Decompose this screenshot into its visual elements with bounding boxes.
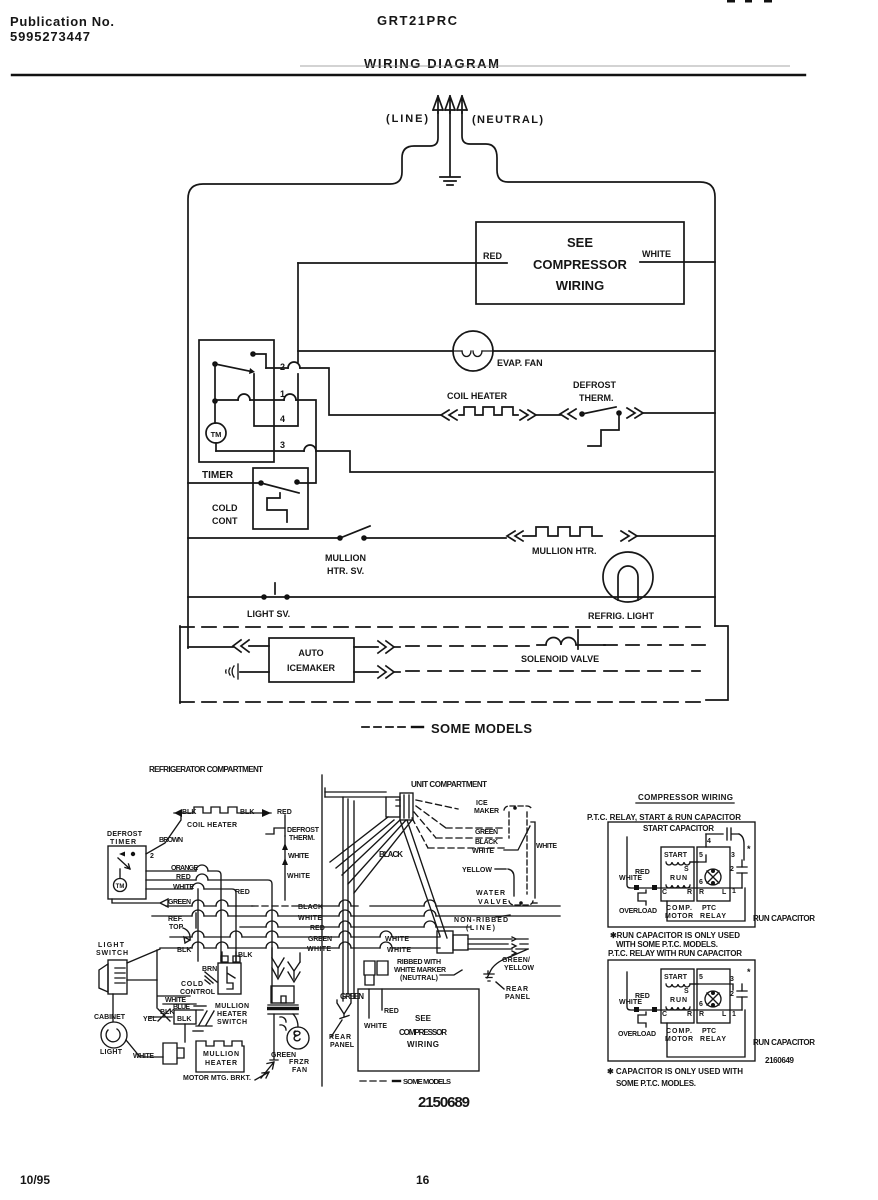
wire mullion heater to right bus (637, 535, 715, 537)
svg-text:HTR. SV.: HTR. SV. (327, 566, 364, 576)
svg-text:WATER: WATER (476, 890, 505, 897)
header rule line (12, 74, 805, 76)
svg-text:BLK: BLK (240, 809, 254, 816)
wire water to icemaker (240, 671, 269, 673)
timer arm jumper wire (254, 374, 298, 426)
coil heater element (459, 407, 518, 415)
svg-text:COMPRESSOR: COMPRESSOR (533, 257, 628, 272)
svg-text:R: R (699, 1011, 704, 1018)
svg-text:CONTROL: CONTROL (180, 989, 216, 996)
svg-text:ORANGE: ORANGE (171, 865, 198, 872)
svg-text:REAR: REAR (506, 986, 528, 993)
svg-text:RUN: RUN (670, 875, 687, 882)
run winding 1 (666, 885, 690, 888)
timer contact B (212, 361, 218, 367)
wire to RED with arrow (253, 812, 271, 814)
svg-text:PANEL: PANEL (330, 1042, 355, 1049)
defrost therm contact left (579, 411, 585, 417)
wire lamp to white (126, 1040, 163, 1057)
svg-text:WHITE: WHITE (307, 946, 331, 953)
ground symbol (440, 177, 460, 185)
wire brown to coil heater (146, 813, 181, 854)
timer box (199, 340, 274, 462)
coil heater inline arrows right (520, 410, 536, 420)
svg-text:HEATER: HEATER (217, 1011, 247, 1018)
svg-text:TOP: TOP (169, 924, 184, 931)
timer contact wire A (253, 354, 266, 368)
comp motor box 2 (661, 969, 694, 1023)
legend some models lower (360, 1080, 388, 1082)
svg-text:WHITE: WHITE (536, 843, 557, 850)
wire WHITE from compressor box (640, 261, 715, 263)
icemaker output wire 2 (354, 671, 378, 673)
svg-text:COIL HEATER: COIL HEATER (447, 391, 508, 401)
line arrow (433, 96, 443, 113)
svg-text:4: 4 (707, 838, 711, 845)
wire terminal 3 run (216, 451, 713, 472)
svg-text:YEL: YEL (143, 1016, 157, 1023)
svg-text:MULLION: MULLION (325, 553, 366, 563)
svg-text:WHITE: WHITE (472, 848, 494, 855)
main run wire 2 (661, 1009, 742, 1011)
wire switch to heater connector (184, 1024, 186, 1042)
wire left bus to cold control (188, 482, 261, 484)
svg-text:START: START (664, 852, 688, 859)
run winding 2 (666, 1007, 690, 1010)
svg-text:NON-RIBBED: NON-RIBBED (454, 917, 508, 924)
cold control bellows lower (227, 967, 235, 989)
line connector block (437, 931, 453, 953)
wire RED to compressor box (298, 262, 507, 264)
svg-text:SOME MODELS: SOME MODELS (403, 1077, 451, 1086)
start winding 2 (666, 984, 698, 987)
svg-text:GRT21PRC: GRT21PRC (377, 13, 458, 28)
svg-text:2150689: 2150689 (418, 1094, 470, 1111)
coil heater inline arrows left (441, 410, 457, 420)
svg-text:SWITCH: SWITCH (217, 1019, 247, 1026)
svg-text:VALVE: VALVE (478, 899, 507, 906)
svg-text:COMP.: COMP. (666, 1028, 692, 1035)
svg-text:16: 16 (416, 1173, 430, 1187)
svg-text:CABINET: CABINET (94, 1014, 126, 1021)
wire terminal 2 run (266, 368, 441, 415)
svg-text:MAKER: MAKER (474, 808, 499, 815)
ice maker dashed drops (509, 812, 527, 894)
svg-text:(NEUTRAL): (NEUTRAL) (400, 975, 438, 982)
wires plug to line connector (400, 820, 447, 938)
bus wire BLACK (166, 905, 252, 907)
run capacitor C2 2 (737, 991, 747, 997)
cold control bellows (267, 493, 287, 522)
defrost timer blade (118, 858, 130, 869)
defrost therm inline arrows left (560, 409, 576, 419)
white feed wire 2 (627, 972, 661, 1010)
mullion heater switch box (174, 1010, 196, 1024)
cold control contact right (294, 479, 300, 485)
svg-text:TM: TM (116, 884, 125, 890)
wire cold control drops (222, 952, 236, 961)
svg-text:3: 3 (730, 976, 734, 983)
svg-text:RUN CAPACITOR: RUN CAPACITOR (753, 1038, 815, 1047)
svg-text:RELAY: RELAY (700, 913, 726, 920)
svg-text:RUN: RUN (670, 997, 687, 1004)
black harness diagonals (330, 817, 412, 893)
svg-text:RED: RED (384, 1008, 399, 1015)
water supply symbol (226, 664, 238, 679)
svg-text:(LINE): (LINE) (466, 925, 495, 932)
svg-text:ICEMAKER: ICEMAKER (287, 663, 336, 673)
svg-text:2: 2 (280, 362, 285, 372)
cold control box lower (218, 963, 241, 994)
wire C to TM (214, 401, 216, 423)
svg-text:✱ CAPACITOR IS ONLY USED WITH: ✱ CAPACITOR IS ONLY USED WITH (607, 1067, 743, 1076)
overload protector 2 (638, 1012, 646, 1027)
freezer fan motor M2 (287, 1027, 309, 1049)
svg-text:COLD: COLD (181, 981, 203, 988)
svg-text:GREEN: GREEN (308, 936, 332, 943)
wire red riser (297, 263, 299, 362)
svg-text:SOME P.T.C. MODLES.: SOME P.T.C. MODLES. (616, 1079, 696, 1088)
defrost therm blade (582, 407, 616, 414)
svg-text:MULLION HTR.: MULLION HTR. (532, 546, 597, 556)
svg-text:3: 3 (731, 852, 735, 859)
wires into plug from divider (325, 792, 386, 797)
start winding 1 (666, 862, 698, 865)
svg-text:RED: RED (176, 874, 191, 881)
wire light switch to bus (127, 949, 160, 963)
cold control box (253, 468, 308, 529)
wire harness cluster (150, 980, 196, 1021)
svg-text:R: R (687, 889, 692, 896)
wire orange from timer (146, 871, 221, 961)
svg-text:5: 5 (699, 974, 703, 981)
yellow wire to water valve (508, 869, 514, 896)
junction dots on main wire 2 (634, 1007, 639, 1012)
svg-text:WHITE: WHITE (165, 997, 186, 1004)
svg-text:BLK: BLK (160, 1009, 174, 1016)
compressor wiring box U1 (476, 222, 684, 304)
rear panel ground (484, 974, 494, 981)
svg-text:COLD: COLD (212, 503, 238, 513)
ptc relay box 2 (697, 969, 730, 1023)
svg-text:6: 6 (699, 1001, 703, 1008)
green ground arrow (270, 1053, 278, 1060)
defrost timer motor TM (114, 879, 127, 892)
svg-text:P.T.C. RELAY WITH RUN CAPACITO: P.T.C. RELAY WITH RUN CAPACITOR (608, 949, 742, 958)
evap fan motor M1 (453, 331, 493, 371)
ground wire (449, 110, 451, 176)
wire TM down (215, 443, 217, 451)
wire mullion heater line (188, 537, 506, 539)
wire red drop (284, 815, 286, 828)
svg-text:HEATER: HEATER (205, 1060, 237, 1067)
cropped page-top marks (727, 0, 772, 3)
svg-text:TIMER: TIMER (110, 839, 136, 846)
unit compartment plug P1 (386, 797, 400, 817)
wire light switch line (188, 596, 715, 598)
wire switch to cabinet light (112, 994, 114, 1021)
legend some models (362, 726, 406, 728)
solenoid valve L1 (537, 638, 605, 645)
icemaker output wire 1 (354, 646, 378, 648)
mullion heater box lower (196, 1041, 244, 1072)
svg-text:COMPRESSOR WIRING: COMPRESSOR WIRING (638, 793, 733, 802)
timer switch blade (215, 364, 249, 371)
mullion heater inline arrows left (507, 531, 523, 541)
compressor leads (369, 989, 382, 1018)
svg-text:RED: RED (310, 925, 325, 932)
ref top arrow (183, 928, 190, 943)
svg-text:(NEUTRAL): (NEUTRAL) (472, 114, 543, 126)
cold control terminals (221, 956, 240, 962)
wire coil heater to defrost therm (536, 414, 560, 416)
svg-text:✱RUN CAPACITOR IS ONLY USED: ✱RUN CAPACITOR IS ONLY USED (610, 931, 740, 940)
compartment divider wire (321, 775, 323, 1086)
svg-text:S: S (684, 866, 689, 873)
dashed wires to ice maker (416, 800, 458, 809)
svg-text:SEE: SEE (415, 1014, 432, 1023)
svg-text:DEFROST: DEFROST (287, 827, 320, 834)
svg-text:TIMER: TIMER (202, 470, 234, 481)
svg-text:SWITCH: SWITCH (96, 950, 128, 957)
svg-text:MULLION: MULLION (203, 1051, 239, 1058)
svg-text:WHITE MARKER: WHITE MARKER (394, 967, 446, 974)
svg-text:GREEN: GREEN (340, 992, 364, 1001)
cold control contact left (258, 480, 264, 486)
svg-text:RELAY: RELAY (700, 1036, 726, 1043)
svg-text:C: C (662, 1011, 667, 1018)
svg-text:WHITE: WHITE (133, 1053, 154, 1060)
svg-text:MOTOR MTG. BRKT.: MOTOR MTG. BRKT. (183, 1075, 251, 1082)
ground arrow (445, 96, 455, 113)
some models dashed enclosure (179, 626, 181, 703)
coil heater element lower (174, 807, 253, 813)
svg-text:MOTOR: MOTOR (665, 913, 693, 920)
svg-text:5995273447: 5995273447 (10, 29, 90, 44)
svg-text:RED: RED (483, 251, 503, 261)
bus wire WHITE2 (160, 947, 440, 949)
svg-text:EVAP. FAN: EVAP. FAN (497, 358, 543, 368)
defrost therm inline arrows right (627, 408, 643, 418)
svg-text:2160649: 2160649 (765, 1056, 795, 1065)
svg-text:PTC: PTC (702, 1028, 716, 1035)
svg-text:3: 3 (280, 440, 285, 450)
start cap return curve 1 (739, 834, 744, 860)
timer contact A (250, 351, 256, 357)
svg-text:WIRING DIAGRAM: WIRING DIAGRAM (364, 56, 499, 71)
svg-text:REAR: REAR (329, 1034, 351, 1041)
see compressor wiring box lower (358, 989, 479, 1071)
green yellow wire (487, 949, 528, 978)
svg-text:BLK: BLK (177, 1016, 191, 1023)
svg-text:1: 1 (732, 1011, 736, 1018)
svg-text:BLK: BLK (177, 947, 191, 954)
svg-text:START CAPACITOR: START CAPACITOR (643, 824, 714, 833)
svg-text:4: 4 (280, 414, 285, 424)
wire white drop with arrows (284, 836, 286, 900)
wire icemaker feed (188, 646, 233, 648)
svg-text:COMPRESSOR: COMPRESSOR (399, 1028, 447, 1037)
mullion heater switch hatches (196, 1010, 214, 1026)
main run wire 1 (661, 887, 742, 889)
wire white from timer (146, 889, 236, 961)
run capacitor C2 1 (737, 867, 747, 873)
hop bumps on terminal 1 wire (238, 394, 296, 400)
water valve dashed connector (509, 901, 533, 905)
svg-text:RED: RED (635, 869, 650, 876)
defrost timer box (108, 846, 146, 899)
svg-text:WIRING: WIRING (556, 278, 604, 293)
light switch S2 (261, 594, 267, 600)
svg-text:OVERLOAD: OVERLOAD (619, 908, 657, 915)
svg-text:*: * (747, 844, 751, 854)
svg-text:BROWN: BROWN (159, 837, 183, 844)
svg-text:YELLOW: YELLOW (462, 867, 492, 874)
svg-text:REFRIG. LIGHT: REFRIG. LIGHT (588, 611, 654, 621)
mullion heater connector (163, 1043, 184, 1064)
svg-text:COMP.: COMP. (666, 905, 692, 912)
svg-text:WHITE: WHITE (619, 999, 642, 1006)
svg-text:2: 2 (150, 853, 154, 860)
svg-text:R: R (687, 1011, 692, 1018)
svg-text:WHITE: WHITE (364, 1023, 387, 1030)
hop on terminal 3 wire (304, 445, 316, 451)
svg-text:GREEN: GREEN (168, 899, 191, 906)
svg-text:CONT: CONT (212, 516, 238, 526)
start capacitor C1 (706, 828, 739, 840)
svg-text:WHITE: WHITE (387, 947, 411, 954)
svg-text:GREEN: GREEN (475, 829, 498, 836)
outer enclosure left/top wire (188, 112, 438, 648)
svg-text:MOTOR: MOTOR (665, 1036, 693, 1043)
svg-text:FRZR: FRZR (289, 1059, 309, 1066)
run cap loop 2 (667, 1010, 745, 1057)
svg-text:2: 2 (730, 991, 734, 998)
ptc relay box 1 (697, 847, 730, 901)
harness verticals (343, 797, 354, 1001)
light switch body (108, 960, 127, 994)
freezer fan connector bars (268, 1005, 298, 1014)
svg-text:WHITE: WHITE (173, 884, 194, 891)
cold control feed hatch (205, 972, 217, 984)
svg-text:RED: RED (635, 993, 650, 1000)
svg-text:WHITE: WHITE (287, 873, 310, 880)
bus wire GREEN (170, 936, 440, 938)
svg-text:LIGHT: LIGHT (100, 1049, 123, 1056)
defrost therm bracket lower (266, 828, 285, 836)
cold control blade (261, 483, 299, 493)
svg-text:TM: TM (211, 430, 222, 439)
auto icemaker box (269, 638, 354, 682)
defrost therm contact right (616, 410, 622, 416)
svg-text:5: 5 (699, 852, 703, 859)
svg-text:L: L (722, 1011, 727, 1018)
wire red from timer (146, 880, 272, 1003)
run cap loop 1 (667, 888, 745, 921)
defrost timer contact (131, 852, 135, 856)
svg-text:WHITE: WHITE (619, 875, 642, 882)
wire B to C (214, 364, 216, 401)
start wire to cap 2 (690, 984, 733, 990)
ptc pellet symbol 2 (705, 991, 721, 1007)
svg-text:P.T.C. RELAY, START & RUN CAPA: P.T.C. RELAY, START & RUN CAPACITOR (587, 813, 741, 822)
timer contact C (212, 398, 218, 404)
svg-text:REF.: REF. (168, 916, 183, 923)
svg-text:LIGHT: LIGHT (98, 942, 125, 949)
diagram box 2 (608, 960, 755, 1061)
svg-text:SOME MODELS: SOME MODELS (431, 721, 532, 736)
svg-text:AUTO: AUTO (298, 648, 323, 658)
svg-text:10/95: 10/95 (20, 1173, 50, 1187)
svg-text:FAN: FAN (292, 1067, 307, 1074)
freezer fan legs (274, 1014, 286, 1053)
svg-text:GREEN: GREEN (271, 1052, 296, 1059)
white wire right leg (531, 822, 535, 898)
svg-text:LIGHT SV.: LIGHT SV. (247, 609, 290, 619)
wire green from timer (112, 899, 168, 907)
wire defrost therm to right bus (643, 412, 715, 414)
ice maker dashed connector (504, 806, 532, 810)
bus wire WHITE (152, 915, 560, 917)
svg-text:DEFROST: DEFROST (107, 831, 143, 838)
svg-text:BLACK: BLACK (298, 904, 323, 911)
cabinet light lamp (101, 1022, 127, 1048)
svg-text:WHITE: WHITE (288, 853, 309, 860)
svg-text:WHITE: WHITE (642, 249, 671, 259)
svg-text:SOLENOID VALVE: SOLENOID VALVE (521, 654, 599, 664)
svg-text:REFRIGERATOR COMPARTMENT: REFRIGERATOR COMPARTMENT (149, 765, 263, 774)
comp motor box 1 (661, 847, 694, 901)
svg-text:BLACK: BLACK (379, 850, 403, 859)
svg-text:BLACK: BLACK (475, 839, 498, 846)
neutral arrow (457, 96, 467, 113)
svg-text:2: 2 (730, 866, 734, 873)
svg-text:PANEL: PANEL (505, 994, 531, 1001)
overload protector 1 (638, 890, 646, 905)
svg-text:THERM.: THERM. (289, 835, 315, 842)
wire evap fan line (298, 350, 715, 352)
svg-text:RED: RED (235, 889, 250, 896)
svg-text:ICE: ICE (476, 800, 488, 807)
svg-text:R: R (699, 889, 704, 896)
svg-text:START: START (664, 974, 688, 981)
junction dots on main wire 1 (634, 885, 639, 890)
svg-text:RIBBED WITH: RIBBED WITH (397, 959, 441, 966)
svg-text:1: 1 (280, 389, 285, 399)
svg-text:L: L (722, 889, 727, 896)
start wire to ptc 1 (690, 834, 706, 862)
svg-text:COIL HEATER: COIL HEATER (187, 822, 237, 829)
icemaker inline arrows left (233, 640, 249, 652)
bus wire RED (240, 926, 470, 928)
ptc pellet symbol 1 (705, 869, 721, 885)
svg-text:WIRING: WIRING (407, 1040, 439, 1049)
svg-text:PTC: PTC (702, 905, 716, 912)
wire green drop (197, 889, 199, 961)
mullion heater element R2 (523, 527, 602, 536)
svg-text:MULLION: MULLION (215, 1003, 249, 1010)
mullion heater switch S1 (337, 535, 343, 541)
svg-text:SEE: SEE (567, 235, 593, 250)
svg-text:6: 6 (699, 879, 703, 886)
svg-text:WITH SOME P.T.C. MODELS.: WITH SOME P.T.C. MODELS. (616, 940, 718, 949)
freezer fan connector stack (272, 948, 300, 962)
line connector pins (468, 939, 512, 949)
hop on terminal 2 wire (288, 362, 300, 368)
svg-text:(LINE): (LINE) (386, 113, 428, 125)
defrost therm bracket (588, 414, 619, 446)
svg-text:RUN CAPACITOR: RUN CAPACITOR (753, 914, 815, 923)
